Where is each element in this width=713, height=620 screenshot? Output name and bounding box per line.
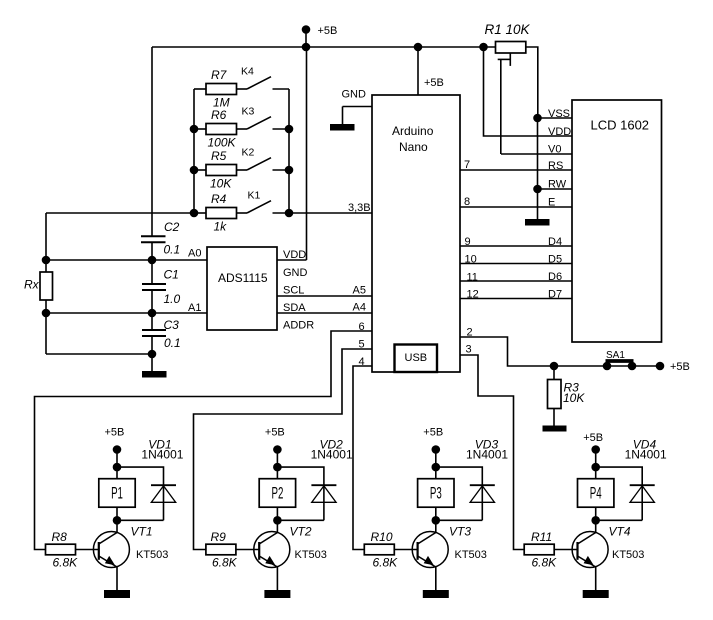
wire to diode VD4 cathode bbox=[596, 467, 643, 484]
wire diode anode to collector node relay 1 bbox=[117, 519, 164, 521]
wire +5V to relay P2 bbox=[276, 450, 278, 479]
wire base resistor to transistor VT4 bbox=[554, 549, 577, 551]
svg-text:R8: R8 bbox=[52, 530, 68, 544]
svg-text:ADS1115: ADS1115 bbox=[218, 271, 268, 285]
ground below R3 bbox=[553, 409, 555, 426]
node +5B terminal relay 1 bbox=[113, 445, 122, 454]
svg-text:D6: D6 bbox=[548, 271, 562, 283]
ground relay 1 bbox=[104, 590, 130, 598]
wire emitter to ground relay 4 bbox=[595, 567, 597, 590]
node +5B top terminal bbox=[302, 25, 311, 34]
svg-text:D5: D5 bbox=[548, 254, 562, 266]
wire diode anode to collector node relay 3 bbox=[436, 519, 483, 521]
node +5B right terminal bbox=[656, 362, 665, 371]
svg-text:Rx: Rx bbox=[24, 278, 40, 292]
junction VSS bbox=[533, 114, 542, 123]
relay coil P4 bbox=[578, 479, 614, 508]
svg-text:VT4: VT4 bbox=[609, 525, 631, 539]
svg-text:A1: A1 bbox=[188, 302, 201, 314]
svg-text:6.8K: 6.8K bbox=[532, 556, 558, 570]
svg-text:RW: RW bbox=[548, 179, 567, 191]
wire P4 to collector bbox=[595, 507, 597, 532]
ground below RW bbox=[525, 219, 550, 226]
svg-text:RS: RS bbox=[548, 160, 563, 172]
wire RS to pin 7 bbox=[460, 169, 572, 171]
diode VD4 1N4001 bbox=[630, 484, 655, 486]
svg-text:9: 9 bbox=[465, 236, 471, 248]
relay coil P2 bbox=[259, 479, 295, 508]
IC LCD 1602 bbox=[572, 100, 662, 342]
svg-text:3,3B: 3,3B bbox=[348, 202, 371, 214]
svg-text:C3: C3 bbox=[164, 318, 180, 332]
junction on rail at x483 bbox=[479, 43, 488, 52]
IC Arduino Nano bbox=[372, 95, 460, 372]
ground at Arduino GND bbox=[342, 107, 344, 125]
ground relay 4 bbox=[583, 590, 609, 598]
svg-text:GND: GND bbox=[283, 267, 308, 279]
junction collector node relay 3 bbox=[432, 516, 441, 525]
junction ladder left row K3 bbox=[190, 125, 199, 134]
transistor VT4 KT503 bbox=[572, 532, 608, 568]
wire emitter to ground relay 2 bbox=[276, 567, 278, 590]
junction collector node relay 1 bbox=[113, 516, 122, 525]
ground below C3 bbox=[142, 371, 167, 378]
wire +5V to relay P1 bbox=[116, 450, 118, 479]
svg-text:6.8K: 6.8K bbox=[373, 556, 399, 570]
wire base resistor to transistor VT2 bbox=[236, 549, 259, 551]
diode VD3 1N4001 bbox=[470, 484, 495, 486]
svg-text:LCD 1602: LCD 1602 bbox=[591, 118, 650, 133]
ground relay 2 bbox=[264, 590, 290, 598]
svg-text:KT503: KT503 bbox=[455, 549, 487, 561]
wire D7 to pin 12 bbox=[460, 298, 572, 300]
junction collector node relay 4 bbox=[591, 516, 600, 525]
svg-text:6.8K: 6.8K bbox=[212, 556, 238, 570]
svg-text:A5: A5 bbox=[353, 285, 366, 297]
wire P1 to collector bbox=[116, 507, 118, 532]
svg-text:1N4001: 1N4001 bbox=[625, 448, 667, 462]
svg-text:E: E bbox=[548, 197, 555, 209]
junction R3 top bbox=[550, 362, 559, 371]
svg-text:K3: K3 bbox=[242, 105, 255, 117]
wire +5V to ADS VDD bbox=[306, 47, 308, 260]
wire node A0 row bbox=[46, 259, 207, 261]
ground relay 3 bbox=[423, 590, 449, 598]
switch K2 bbox=[237, 169, 248, 171]
wire base resistor to transistor VT3 bbox=[394, 549, 417, 551]
svg-text:P1: P1 bbox=[111, 484, 123, 502]
resistor R8 6.8K bbox=[46, 544, 76, 555]
svg-text:11: 11 bbox=[467, 272, 478, 284]
wire ladder row to Rx top bbox=[46, 212, 194, 214]
svg-text:1N4001: 1N4001 bbox=[311, 448, 353, 462]
svg-text:A4: A4 bbox=[353, 302, 366, 314]
junction ladder right row K3 bbox=[285, 125, 294, 134]
pin GND of Arduino bbox=[343, 106, 373, 108]
svg-text:+5B: +5B bbox=[583, 432, 603, 444]
wire to diode VD2 cathode bbox=[277, 467, 324, 484]
capacitor C1 1.0 bbox=[151, 260, 153, 284]
switch K3 bbox=[237, 128, 248, 130]
junction diode top relay 2 bbox=[273, 463, 282, 472]
svg-text:P3: P3 bbox=[430, 484, 442, 502]
wire P3 to collector bbox=[435, 507, 437, 532]
junction collector node relay 2 bbox=[273, 516, 282, 525]
svg-text:SCL: SCL bbox=[283, 285, 304, 297]
svg-text:KT503: KT503 bbox=[136, 549, 168, 561]
wire node A1 row bbox=[46, 312, 207, 314]
resistor R11 6.8K bbox=[524, 544, 554, 555]
svg-text:K2: K2 bbox=[242, 146, 255, 158]
svg-text:+5B: +5B bbox=[265, 427, 285, 439]
svg-text:V0: V0 bbox=[548, 144, 561, 156]
transistor VT3 KT503 bbox=[412, 532, 448, 568]
node +5B terminal relay 4 bbox=[591, 445, 600, 454]
wire to diode VD1 cathode bbox=[117, 467, 164, 484]
svg-text:6.8K: 6.8K bbox=[53, 556, 79, 570]
resistor Rx bbox=[45, 213, 47, 272]
switch K4 bbox=[237, 88, 248, 90]
wire +5V drop to C2 bbox=[151, 47, 153, 236]
wire +5V to relay P3 bbox=[435, 450, 437, 479]
resistor R5 10K bbox=[194, 169, 206, 171]
wire RW to ground column bbox=[538, 188, 573, 190]
svg-text:VSS: VSS bbox=[548, 108, 570, 120]
svg-text:A0: A0 bbox=[188, 248, 201, 260]
svg-text:SDA: SDA bbox=[283, 302, 306, 314]
junction diode top relay 4 bbox=[591, 463, 600, 472]
wire diode anode to collector node relay 2 bbox=[277, 519, 324, 521]
svg-text:K1: K1 bbox=[248, 189, 261, 201]
svg-text:1.0: 1.0 bbox=[164, 292, 181, 306]
svg-text:3: 3 bbox=[466, 344, 472, 356]
svg-text:2: 2 bbox=[467, 327, 473, 339]
svg-text:1k: 1k bbox=[214, 220, 228, 234]
node +5B terminal relay 2 bbox=[273, 445, 282, 454]
svg-text:10K: 10K bbox=[210, 177, 232, 191]
svg-text:10K: 10K bbox=[563, 391, 585, 405]
relay coil P3 bbox=[418, 479, 454, 508]
junction ladder left row K1 bbox=[190, 209, 199, 218]
wire ladder left bus bbox=[193, 89, 195, 213]
wire V0 to R1 wiper bbox=[501, 153, 572, 155]
wire R1 wiper bbox=[509, 53, 511, 66]
switch K1 bbox=[237, 212, 248, 214]
junction on rail at x306 bbox=[302, 43, 311, 52]
svg-text:R11: R11 bbox=[531, 530, 552, 544]
svg-text:ADDR: ADDR bbox=[283, 320, 314, 332]
junction A0 mid bbox=[148, 256, 157, 265]
junction RW bbox=[533, 185, 542, 194]
svg-text:VT3: VT3 bbox=[449, 525, 471, 539]
svg-text:VT2: VT2 bbox=[290, 525, 312, 539]
wire emitter to ground relay 3 bbox=[435, 567, 437, 590]
junction on rail at x418 bbox=[414, 43, 423, 52]
relay coil P1 bbox=[99, 479, 135, 508]
svg-text:P4: P4 bbox=[590, 484, 602, 502]
pin VDD of ADS1115 bbox=[277, 259, 307, 261]
wire emitter to ground relay 1 bbox=[116, 567, 118, 590]
capacitor C3 0.1 bbox=[151, 313, 153, 330]
svg-text:+5B: +5B bbox=[670, 361, 690, 373]
wire 3.3V from ladder to Arduino bbox=[289, 212, 372, 214]
resistor R7 1M bbox=[194, 88, 206, 90]
svg-text:Nano: Nano bbox=[399, 140, 428, 154]
junction A1 left bbox=[42, 309, 51, 318]
IC ADS1115 bbox=[207, 247, 277, 330]
svg-text:KT503: KT503 bbox=[612, 549, 644, 561]
wire VSS to ground column bbox=[538, 117, 573, 119]
svg-text:0.1: 0.1 bbox=[164, 336, 181, 350]
wire VDD to +5V bbox=[484, 47, 573, 136]
svg-text:C2: C2 bbox=[164, 220, 180, 234]
junction diode top relay 1 bbox=[113, 463, 122, 472]
wire D4 to pin 9 bbox=[460, 245, 572, 247]
wire diode anode to collector node relay 4 bbox=[596, 519, 643, 521]
resistor R1 10K potentiometer bbox=[496, 42, 526, 54]
wire pin 2 to switch SA1 bbox=[460, 337, 660, 366]
wire ground column from R1 bbox=[537, 118, 539, 219]
svg-text:VT1: VT1 bbox=[131, 525, 153, 539]
svg-text:+5B: +5B bbox=[424, 77, 444, 89]
svg-text:+5B: +5B bbox=[423, 427, 443, 439]
wire D6 to pin 11 bbox=[460, 280, 572, 282]
node +5B terminal relay 3 bbox=[432, 445, 441, 454]
wire R1 right to VSS ground column bbox=[526, 47, 538, 118]
svg-text:D7: D7 bbox=[548, 289, 562, 301]
junction ladder right row K2 bbox=[285, 166, 294, 175]
junction ground node bbox=[148, 350, 157, 359]
switch SA1 pushbutton bbox=[603, 362, 612, 371]
svg-text:100K: 100K bbox=[208, 136, 237, 150]
svg-text:R10: R10 bbox=[371, 530, 393, 544]
wire +5V to relay P4 bbox=[595, 450, 597, 479]
svg-text:0.1: 0.1 bbox=[164, 243, 181, 257]
resistor R9 6.8K bbox=[206, 544, 236, 555]
svg-text:D4: D4 bbox=[548, 236, 562, 248]
wire ladder right bus bbox=[288, 89, 290, 213]
wire +5V to Arduino bbox=[417, 47, 419, 95]
junction A0 left bbox=[42, 256, 51, 265]
diode VD2 1N4001 bbox=[311, 484, 336, 486]
svg-text:12: 12 bbox=[467, 289, 479, 301]
wire Rx bottom to ground node bbox=[46, 353, 152, 355]
svg-text:R9: R9 bbox=[211, 530, 227, 544]
svg-text:GND: GND bbox=[342, 89, 367, 101]
junction diode top relay 3 bbox=[432, 463, 441, 472]
svg-text:R1 10K: R1 10K bbox=[485, 22, 531, 37]
capacitor C2 0.1 bbox=[141, 235, 166, 237]
pin SDA of ADS1115 wire to A4 bbox=[277, 312, 372, 314]
svg-text:VDD: VDD bbox=[548, 126, 571, 138]
resistor R3 10K bbox=[553, 366, 555, 380]
wire base resistor to transistor VT1 bbox=[76, 549, 99, 551]
svg-text:SA1: SA1 bbox=[606, 350, 625, 361]
svg-text:+5B: +5B bbox=[318, 25, 338, 37]
svg-text:1N4001: 1N4001 bbox=[141, 448, 183, 462]
junction ladder left row K2 bbox=[190, 166, 199, 175]
svg-text:Arduino: Arduino bbox=[392, 124, 434, 138]
connector USB bbox=[395, 345, 438, 373]
transistor VT1 KT503 bbox=[93, 532, 129, 568]
resistor R6 100K bbox=[194, 128, 206, 130]
junction A1 mid bbox=[148, 309, 157, 318]
svg-text:USB: USB bbox=[405, 352, 428, 364]
svg-text:10: 10 bbox=[465, 254, 477, 266]
wire P2 to collector bbox=[276, 507, 278, 532]
svg-text:R5: R5 bbox=[211, 149, 227, 163]
wire D5 to pin 10 bbox=[460, 263, 572, 265]
resistor R4 1k bbox=[194, 212, 206, 214]
svg-text:R6: R6 bbox=[211, 108, 227, 122]
svg-text:1N4001: 1N4001 bbox=[466, 448, 508, 462]
wire E to pin 8 bbox=[460, 206, 572, 208]
wire to diode VD3 cathode bbox=[436, 467, 483, 484]
junction ladder right row K1 bbox=[285, 209, 294, 218]
svg-text:R7: R7 bbox=[211, 68, 228, 82]
resistor R10 6.8K bbox=[364, 544, 394, 555]
wire top +5V rail bbox=[152, 46, 496, 48]
svg-text:VDD: VDD bbox=[283, 249, 306, 261]
svg-text:KT503: KT503 bbox=[295, 549, 327, 561]
svg-text:P2: P2 bbox=[271, 484, 283, 502]
svg-text:+5B: +5B bbox=[105, 427, 125, 439]
svg-text:C1: C1 bbox=[164, 268, 179, 282]
svg-text:8: 8 bbox=[464, 196, 470, 208]
pin SCL of ADS1115 wire to A5 bbox=[277, 295, 372, 297]
transistor VT2 KT503 bbox=[254, 532, 290, 568]
svg-text:K4: K4 bbox=[241, 65, 254, 77]
svg-text:R4: R4 bbox=[211, 192, 227, 206]
diode VD1 1N4001 bbox=[151, 484, 176, 486]
